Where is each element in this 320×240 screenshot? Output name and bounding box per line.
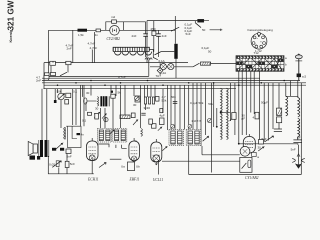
box under V4 <box>240 157 252 172</box>
grid arrow V3 <box>162 147 167 151</box>
wire W46 <box>297 137 299 140</box>
wire W15 <box>150 85 152 97</box>
resistor R5 hatched <box>201 62 211 65</box>
wire W42 <box>278 83 280 129</box>
speaker SP1 <box>28 142 37 156</box>
wire W30 <box>216 108 218 127</box>
tube V1 <box>87 138 99 161</box>
wire W29 <box>213 83 215 127</box>
coil assembly tuning L3 <box>113 47 151 55</box>
labels mid extra <box>82 118 137 142</box>
label cluster mid 1 <box>162 95 214 123</box>
wire vertical x72 drop <box>72 30 74 62</box>
wire after R3 <box>204 21 223 31</box>
svg-text:4,7nF: 4,7nF <box>118 76 126 80</box>
wire W10 <box>124 85 126 115</box>
IF transformer T1 black core <box>97 96 109 106</box>
capacitor C7 <box>45 73 50 77</box>
label caps top <box>66 41 96 50</box>
capacitor bank C10 <box>144 97 154 104</box>
V3 bottom marks <box>153 155 160 165</box>
band filter BF2 <box>113 129 127 143</box>
wire R5 to matrix <box>174 64 236 67</box>
output transformer T3 winding a <box>286 96 288 116</box>
wire drop C3 <box>158 30 160 57</box>
svg-text:a,5: a,5 <box>302 75 307 79</box>
wire W20 <box>174 85 176 129</box>
wire W12 <box>140 85 142 128</box>
wire V3 drop <box>158 160 160 174</box>
wire bus riser x84 <box>83 85 85 126</box>
wire W38 <box>259 71 261 144</box>
wire W5 <box>104 108 106 128</box>
wire pot drop <box>60 100 62 128</box>
junction blob above R7 <box>111 91 113 93</box>
svg-text:4nF: 4nF <box>131 34 136 38</box>
wire W49 <box>286 96 298 97</box>
capacitor C13 <box>274 129 282 132</box>
capacitor C20 <box>141 113 145 115</box>
potentiometer P6 <box>158 127 162 131</box>
oscillator coil L4b <box>227 88 229 139</box>
svg-text:7-5: 7-5 <box>197 119 202 123</box>
jack J1 <box>156 63 163 78</box>
wire V5 <box>60 89 62 94</box>
svg-text:0,1: 0,1 <box>73 90 78 94</box>
capacitor C5 <box>50 61 56 65</box>
tone pot P5 <box>52 161 61 168</box>
svg-text:0,1µF: 0,1µF <box>190 101 198 105</box>
potentiometer P4 <box>265 136 274 142</box>
svg-text:m2: m2 <box>111 15 115 19</box>
wire ant row components <box>44 60 149 77</box>
wire W23 <box>188 85 190 174</box>
wire W22 <box>184 85 186 129</box>
capacitor C12 <box>293 140 302 145</box>
wire R4 vertical <box>153 21 155 52</box>
svg-text:50µF: 50µF <box>261 101 268 105</box>
capacitor C15 box <box>232 113 236 120</box>
svg-text:1,5k: 1,5k <box>78 33 84 37</box>
wire antenna corner vertical <box>48 30 50 80</box>
band filter BF3 <box>169 130 184 146</box>
coil L5 above V1 <box>64 127 66 139</box>
resistor R10 under V2 <box>128 162 135 171</box>
tube V3 <box>151 139 162 162</box>
label pair lower <box>202 46 212 53</box>
wire W35 <box>245 71 247 135</box>
svg-text:50k: 50k <box>199 101 204 105</box>
svg-text:4µF: 4µF <box>160 114 165 118</box>
svg-text:CY1/AB2: CY1/AB2 <box>245 176 259 180</box>
svg-text:5nF: 5nF <box>70 162 75 166</box>
switch S1 <box>171 27 179 31</box>
resistor R12 <box>65 161 69 167</box>
resistor R17 <box>156 97 159 102</box>
junction blob <box>54 100 57 103</box>
capacitor C21 <box>44 75 49 78</box>
wire W1 <box>82 85 84 97</box>
tube socket top view <box>248 28 274 53</box>
svg-text:5nF: 5nF <box>262 137 267 141</box>
V2 bottom marks <box>131 156 136 164</box>
capacitor blob b <box>60 148 64 151</box>
svg-text:Koenig: Koenig <box>9 29 13 43</box>
wire bottom long 2 <box>189 155 302 175</box>
resistor R2 <box>112 20 117 23</box>
svg-text:4n: 4n <box>81 132 85 136</box>
label V2 sides <box>121 164 140 168</box>
svg-text:50k: 50k <box>171 95 176 99</box>
wire V2 <box>52 61 54 62</box>
svg-text:50: 50 <box>208 49 212 53</box>
junction dot L4b <box>216 126 218 128</box>
wire left bus vertical <box>43 63 45 89</box>
output transformer T2 <box>39 140 49 157</box>
components row y111 <box>88 112 92 115</box>
resistor R1 <box>78 29 88 32</box>
wire W28 <box>210 83 212 173</box>
antenna loop C9 <box>84 98 97 104</box>
capacitor C2 <box>143 34 148 37</box>
svg-text:Ub: Ub <box>136 164 140 168</box>
ground symbol <box>292 145 305 169</box>
wire vertical x175 <box>174 16 176 44</box>
svg-text:TA: TA <box>156 74 160 78</box>
wire bus riser x80 <box>80 85 82 126</box>
resistor R16 <box>160 109 163 113</box>
wire V1 anode link <box>98 144 127 148</box>
wire bus lines <box>42 77 260 79</box>
potentiometer P7 <box>258 147 264 151</box>
wire W4 <box>100 108 102 128</box>
svg-text:2nF: 2nF <box>36 79 41 83</box>
wire W43 <box>285 83 287 97</box>
trimmer BF3 <box>171 124 175 128</box>
wire cathode link <box>110 158 122 160</box>
wire W31 <box>234 83 236 135</box>
fuse F2 <box>168 64 174 70</box>
title Koenig 321 GW <box>7 0 16 42</box>
wire V9 <box>46 89 48 140</box>
potentiometer P1 <box>58 93 65 99</box>
wire W13 <box>145 85 146 110</box>
wire W11 <box>133 85 135 96</box>
svg-text:4n: 4n <box>95 33 99 37</box>
svg-text:µ: µ <box>135 139 137 143</box>
wire V1 <box>50 66 52 73</box>
output transformer T3 winding b <box>298 98 300 118</box>
label cluster right1 <box>242 114 301 140</box>
trimmer C18 <box>135 96 139 100</box>
wire W34 <box>241 71 243 135</box>
label row <box>94 112 99 119</box>
wire W44 <box>290 81 292 97</box>
wire W47 <box>300 83 302 175</box>
capacitor blob a <box>52 148 56 151</box>
svg-text:5nF: 5nF <box>186 32 191 36</box>
wire W25 <box>196 83 198 130</box>
coil small L2 <box>145 58 152 60</box>
wire vertical x94 drop <box>94 32 96 63</box>
svg-text:UCL11: UCL11 <box>153 178 164 182</box>
svg-text:µF: µF <box>297 135 301 139</box>
wire vertical x147 <box>146 21 148 63</box>
svg-text:CY2/AB2: CY2/AB2 <box>107 37 121 41</box>
label cluster mid 2 <box>57 76 151 110</box>
capacitor C11 <box>66 149 71 154</box>
junction dots bus <box>57 80 285 86</box>
svg-text:50k: 50k <box>162 99 167 103</box>
svg-text:2nF: 2nF <box>67 47 72 51</box>
tube V2 <box>129 138 140 161</box>
resistor R9 hatched <box>120 115 130 119</box>
svg-text:5k: 5k <box>118 90 122 94</box>
wire L4 tap <box>221 111 230 113</box>
capacitor C6 <box>66 61 71 64</box>
wire W6 <box>110 85 112 94</box>
wire bottom long 1 <box>162 160 240 162</box>
resistor R21 <box>149 119 153 124</box>
wire V10 <box>54 89 56 103</box>
junction dot J48 <box>238 143 240 145</box>
svg-text:30: 30 <box>86 91 90 95</box>
svg-text:3x30: 3x30 <box>144 106 151 110</box>
wire fuse row <box>150 66 174 68</box>
potentiometer P2 <box>203 136 209 141</box>
component small left <box>259 140 264 145</box>
wire W2 <box>85 102 87 111</box>
resistor R14 <box>277 117 282 123</box>
svg-text:0,1: 0,1 <box>82 118 87 122</box>
svg-text:4nF: 4nF <box>162 34 167 38</box>
junction blobs bottom left <box>30 156 36 160</box>
volume pot P3 <box>56 143 63 149</box>
wire W14 <box>147 85 149 97</box>
switch S7 <box>99 163 106 168</box>
capacitor C16 <box>173 101 178 103</box>
label ant values <box>36 75 41 82</box>
wire V4 <box>57 89 59 93</box>
svg-text:50: 50 <box>202 28 206 32</box>
resistor R13 hatched <box>277 108 282 115</box>
switch matrix TO <box>236 51 287 71</box>
wire W36 <box>250 71 252 112</box>
resistor R8 <box>135 96 140 102</box>
pot arrow V2 <box>133 120 138 125</box>
wire upper bus y62 <box>44 62 188 64</box>
trimmer C17 <box>208 119 212 123</box>
switch S6 <box>60 72 67 76</box>
trimmer arrow mid <box>102 114 106 119</box>
oscillator coil L4a <box>221 88 223 139</box>
resistor R18 <box>160 118 165 125</box>
trimmer C19 <box>230 117 233 121</box>
svg-text:0,05: 0,05 <box>49 162 55 166</box>
wire W9 <box>120 85 122 128</box>
resistor R22 <box>65 100 69 105</box>
wire drop C2 <box>145 22 147 57</box>
capacitor C8 <box>51 72 56 75</box>
switch S4 <box>193 63 200 67</box>
resistor R20 <box>131 113 135 118</box>
resistor R7 <box>111 94 115 98</box>
wire W40 <box>267 83 269 141</box>
wire W24 <box>192 83 194 130</box>
svg-text:50k: 50k <box>57 90 62 94</box>
capacitor C4 electrolytic bar <box>174 44 177 59</box>
resistor R19 <box>95 113 99 119</box>
band filter BF4 <box>186 130 201 146</box>
wire W32 <box>230 83 232 121</box>
wire W16 <box>154 85 156 97</box>
svg-text:50k: 50k <box>208 102 213 106</box>
wire V8 <box>41 89 43 140</box>
wire y144 <box>239 143 297 145</box>
wire W39 <box>263 83 265 142</box>
svg-text:30: 30 <box>133 103 137 107</box>
wire W7 <box>112 98 114 128</box>
resistor R11 <box>152 124 157 129</box>
lamp L1 <box>110 26 120 36</box>
wire W17 <box>162 89 164 113</box>
resistor R3 <box>198 19 204 22</box>
svg-text:T12: T12 <box>254 51 260 55</box>
svg-text:30: 30 <box>95 106 99 110</box>
svg-text:0,1A: 0,1A <box>159 59 165 63</box>
svg-text:Fassungsbelegung: Fassungsbelegung <box>248 28 274 32</box>
svg-text:250: 250 <box>151 27 156 31</box>
wire C4 bottom <box>175 59 177 78</box>
svg-text:4,7nF: 4,7nF <box>90 46 98 50</box>
capacitor C3 <box>156 34 161 37</box>
junction dot L4 <box>220 111 222 113</box>
field coil L6 <box>298 118 300 136</box>
pot circle small <box>104 117 108 121</box>
svg-text:30: 30 <box>258 146 262 150</box>
dial lamp mast <box>295 54 306 81</box>
resistor R6 <box>66 93 71 97</box>
wire lamp shunt loop <box>106 22 146 31</box>
wire W8 <box>115 85 117 96</box>
svg-text:ECH11: ECH11 <box>87 178 99 182</box>
resistor R4 box <box>152 31 156 36</box>
svg-text:EBF11: EBF11 <box>129 178 140 182</box>
capacitor C14 box <box>255 112 259 119</box>
wire V7 <box>75 89 77 125</box>
wire bottom left loop <box>48 151 94 174</box>
wire W45 <box>297 81 299 98</box>
wire W33 <box>238 71 240 143</box>
wire V6 <box>72 89 74 125</box>
input filter box <box>66 126 84 147</box>
svg-text:Ua: Ua <box>121 164 125 168</box>
switch S2 <box>195 23 201 28</box>
switch S3 <box>155 52 175 55</box>
svg-text:5nF: 5nF <box>67 155 72 159</box>
trimmer BF4 <box>188 124 192 128</box>
tube V4 <box>240 134 259 159</box>
band filter BF1 <box>98 129 112 143</box>
coil small L8 <box>141 129 143 137</box>
wire vertical x92 <box>91 50 93 63</box>
wire V3 <box>67 65 69 73</box>
svg-text:4,7nF: 4,7nF <box>88 41 96 45</box>
wire W18 <box>167 85 169 130</box>
svg-text:µF: µF <box>242 117 246 121</box>
wire W26 <box>201 83 202 155</box>
wire W27 <box>205 83 207 135</box>
wire W41 <box>272 83 274 129</box>
junction dot T1 <box>98 112 100 114</box>
wire W3 <box>90 85 92 95</box>
wire W21 <box>179 85 181 129</box>
wire top mid horizontal <box>147 20 198 22</box>
wire main top horizontal <box>49 29 176 31</box>
wire W37 <box>253 71 255 114</box>
switch S5 wave selector <box>149 50 158 60</box>
svg-text:321 GW: 321 GW <box>7 0 16 30</box>
svg-text:5nF: 5nF <box>291 148 296 152</box>
label cluster values <box>185 23 193 37</box>
fuse F1 <box>160 64 166 70</box>
capacitor C1 <box>96 29 101 32</box>
wire S2 drop <box>194 21 196 23</box>
coupling arrow BF1 <box>109 130 114 135</box>
wire W19 <box>170 85 172 130</box>
